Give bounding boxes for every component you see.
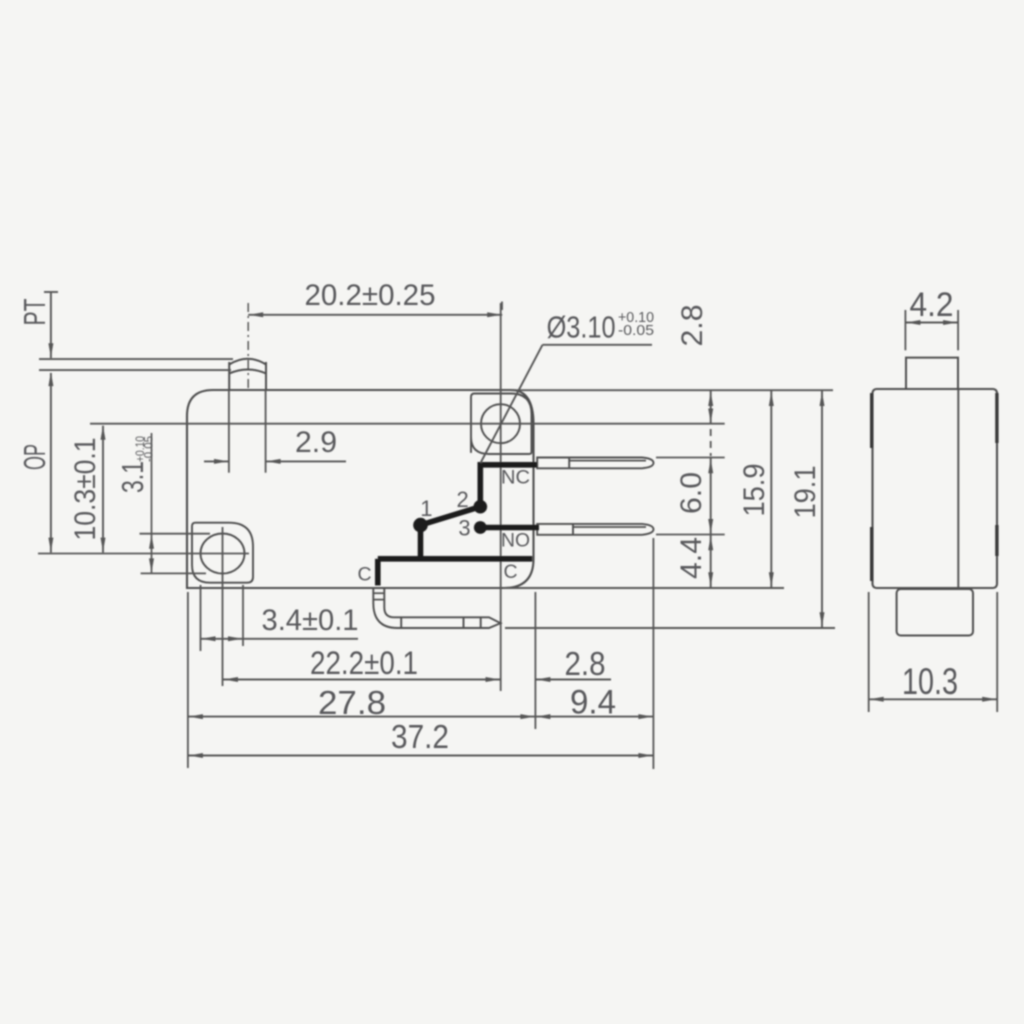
svg-text:1: 1 bbox=[420, 496, 432, 521]
svg-text:10.3: 10.3 bbox=[902, 661, 958, 702]
extension lines bottom bbox=[187, 592, 189, 768]
dim 10.3±0.1 (left) bbox=[102, 426, 104, 553]
dim 10.3 (side view) bbox=[868, 592, 870, 712]
lower mounting boss bbox=[192, 523, 253, 583]
plunger free/operating position lines bbox=[39, 358, 233, 360]
upper hole vertical centerline bbox=[500, 303, 502, 691]
svg-text:10.3±0.1: 10.3±0.1 bbox=[69, 438, 102, 541]
dim 2.8 (bottom) bbox=[535, 679, 611, 681]
svg-text:NO: NO bbox=[501, 530, 530, 552]
dim 4.4 bbox=[710, 535, 712, 589]
svg-text:4.2: 4.2 bbox=[910, 286, 954, 324]
svg-text:22.2±0.1: 22.2±0.1 bbox=[310, 645, 418, 681]
dim 2.8 (top right, vertical) bbox=[710, 390, 712, 424]
extension line 19.1 bottom bbox=[505, 627, 835, 629]
svg-text:27.8: 27.8 bbox=[318, 684, 386, 721]
svg-text:3.4±0.1: 3.4±0.1 bbox=[262, 604, 359, 637]
svg-text:6.0: 6.0 bbox=[675, 472, 708, 514]
dim 4.2 bbox=[904, 310, 906, 350]
svg-text:19.1: 19.1 bbox=[789, 466, 822, 519]
lower hole horizontal centerline bbox=[38, 553, 249, 555]
svg-text:-0.05: -0.05 bbox=[618, 323, 654, 339]
dim 3.4±0.1 bbox=[201, 638, 359, 640]
common drop wire bbox=[375, 559, 381, 586]
dim PT bbox=[44, 291, 58, 293]
side view plunger bbox=[906, 358, 958, 389]
svg-text:OP: OP bbox=[17, 444, 52, 470]
upper mounting boss bbox=[471, 394, 532, 455]
NC terminal tab bbox=[537, 458, 653, 469]
dim 9.4 bbox=[535, 716, 653, 718]
dim OP bbox=[50, 373, 52, 553]
dim 2.9 bbox=[204, 460, 229, 462]
contact point 1 (common pivot) bbox=[413, 518, 428, 533]
NO wire bbox=[484, 525, 539, 531]
lower mounting hole bbox=[201, 534, 245, 574]
upper mounting hole Ø3.10 bbox=[481, 404, 520, 443]
side view parting line bbox=[957, 389, 959, 588]
side view body bbox=[873, 389, 998, 588]
common bus wire bbox=[378, 556, 533, 562]
lever wire 1-2 bbox=[421, 507, 481, 525]
svg-text:NC: NC bbox=[501, 467, 530, 489]
svg-text:2: 2 bbox=[456, 487, 468, 512]
dim 15.9 bbox=[770, 390, 772, 588]
svg-text:2.8: 2.8 bbox=[565, 645, 606, 682]
body bottom edge extension line bbox=[504, 587, 784, 589]
svg-text:C: C bbox=[357, 564, 371, 586]
body top edge extension line bbox=[511, 389, 833, 391]
svg-text:15.9: 15.9 bbox=[738, 464, 771, 517]
NO terminal tab bbox=[537, 524, 653, 535]
upper hole horizontal centerline bbox=[90, 423, 725, 425]
plunger centerline bbox=[247, 303, 249, 388]
svg-text:3: 3 bbox=[458, 516, 470, 541]
svg-text:37.2: 37.2 bbox=[391, 718, 449, 755]
svg-text:4.4: 4.4 bbox=[675, 537, 708, 579]
dim 3.1 +0.10/-0.05 bbox=[140, 533, 211, 535]
common terminal lug (bent down) bbox=[373, 589, 500, 628]
NC wire bbox=[480, 465, 537, 507]
dim 6.0 bbox=[710, 458, 712, 535]
dim 37.2 bbox=[188, 755, 654, 757]
NC top edge extension bbox=[656, 457, 725, 459]
svg-text:20.2±0.25: 20.2±0.25 bbox=[305, 279, 436, 312]
svg-text:2.8: 2.8 bbox=[676, 305, 709, 347]
dim 27.8 bbox=[188, 716, 536, 718]
wire from pivot down bbox=[418, 525, 424, 556]
svg-text:2.9: 2.9 bbox=[295, 426, 337, 459]
svg-text:Ø3.10: Ø3.10 bbox=[547, 311, 616, 345]
dim Ø3.10 +0.10/-0.05 leader bbox=[543, 344, 653, 346]
plunger (actuator button) bbox=[229, 362, 266, 390]
svg-text:9.4: 9.4 bbox=[570, 684, 616, 722]
svg-text:3.1: 3.1 bbox=[115, 461, 150, 493]
NO bottom edge extension bbox=[656, 534, 725, 536]
contact point 3 (NO) bbox=[474, 521, 487, 534]
contact point 2 (NC) bbox=[474, 500, 488, 514]
svg-text:-0.05: -0.05 bbox=[142, 436, 156, 462]
lower hole vertical centerline bbox=[222, 527, 224, 686]
side view bottom boss bbox=[897, 589, 973, 636]
dim 22.2±0.1 bbox=[223, 679, 501, 681]
side view edge ribs bbox=[870, 393, 873, 448]
dim 20.2±0.25 bbox=[248, 314, 502, 316]
svg-text:C: C bbox=[503, 561, 517, 583]
plunger width extension lines (2.9) bbox=[228, 390, 230, 473]
dim 19.1 bbox=[821, 390, 823, 628]
svg-text:PT: PT bbox=[17, 298, 52, 325]
switch body (front view) bbox=[187, 390, 534, 588]
